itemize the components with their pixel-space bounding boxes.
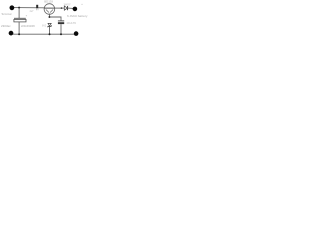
wire junction to cap box	[18, 8, 20, 19]
svg-text:+: +	[26, 15, 28, 18]
wire cap to bottom rail	[60, 24, 62, 34]
svg-text:4u7: 4u7	[30, 10, 35, 13]
wire emitter junction to cap	[50, 17, 62, 21]
node junction top-left	[18, 7, 20, 9]
svg-text:1N4007: 1N4007	[64, 3, 72, 6]
wire bottom rail	[13, 33, 74, 35]
transistor Q1 BD139	[44, 4, 55, 15]
wire transistor to diode	[55, 7, 65, 9]
diode D1	[64, 6, 67, 10]
node junction bottom-left	[18, 33, 20, 35]
node junction emitter	[49, 16, 51, 18]
svg-text:6V2: 6V2	[42, 24, 47, 27]
capacitor C1 series	[36, 5, 38, 10]
terminal input bottom	[9, 31, 14, 36]
wire top rail left	[14, 7, 45, 9]
terminal output plus	[73, 7, 78, 12]
node dot on top wire	[61, 7, 63, 9]
svg-text:230Vac: 230Vac	[1, 24, 11, 28]
svg-text:+: +	[81, 3, 83, 6]
wire zener to bottom rail	[49, 27, 51, 35]
svg-text:Terminal: Terminal	[1, 12, 12, 16]
svg-text:6-9Volt battery: 6-9Volt battery	[67, 14, 88, 18]
svg-text:220nF/400V: 220nF/400V	[21, 24, 35, 28]
svg-text:BD139: BD139	[44, 0, 53, 4]
terminal input top	[10, 5, 15, 10]
wire transistor emitter down	[49, 14, 51, 18]
svg-text:100uF 25V: 100uF 25V	[67, 22, 77, 25]
wire box to bottom rail	[18, 22, 20, 34]
wire diode to terminal	[68, 7, 73, 9]
node junction bottom cap	[60, 33, 62, 35]
capacitor C2 electrolytic	[58, 21, 64, 24]
capacitor X2 box	[14, 17, 26, 19]
terminal output minus	[74, 31, 79, 36]
node junction bottom zener	[49, 33, 51, 35]
zener diode Z1	[48, 23, 52, 27]
